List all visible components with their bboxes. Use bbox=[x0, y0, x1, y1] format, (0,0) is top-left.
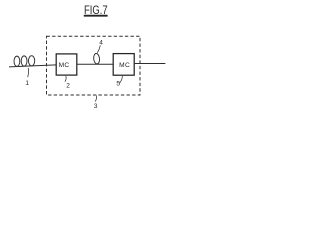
leader line for label 3 bbox=[95, 96, 96, 102]
antenna coil L1 turn c bbox=[29, 56, 35, 66]
figure title FIG.7 bbox=[84, 5, 108, 17]
leader line for label 5 bbox=[119, 76, 122, 83]
svg-text:4: 4 bbox=[99, 40, 103, 47]
wire between MC boxes bbox=[77, 63, 113, 65]
leader line for label 1 bbox=[27, 68, 30, 77]
svg-text:5: 5 bbox=[116, 80, 120, 87]
svg-text:2: 2 bbox=[66, 82, 70, 89]
crossover loop 4 bbox=[93, 53, 100, 64]
MC box U2 bbox=[56, 54, 77, 75]
leader line for label 2 bbox=[65, 76, 66, 82]
antenna coil L1 turn b bbox=[21, 56, 27, 66]
antenna coil L1 turn a bbox=[14, 56, 20, 66]
dashed enclosure box (module 3) bbox=[47, 36, 141, 95]
wire right lead bbox=[134, 63, 165, 65]
svg-text:1: 1 bbox=[25, 80, 29, 87]
svg-text:MC: MC bbox=[119, 62, 130, 69]
MC box U5 bbox=[113, 54, 134, 76]
svg-text:MC: MC bbox=[59, 62, 70, 69]
leader line for label 4 bbox=[97, 45, 100, 53]
svg-text:3: 3 bbox=[94, 103, 98, 110]
wire left lead bbox=[9, 65, 56, 67]
